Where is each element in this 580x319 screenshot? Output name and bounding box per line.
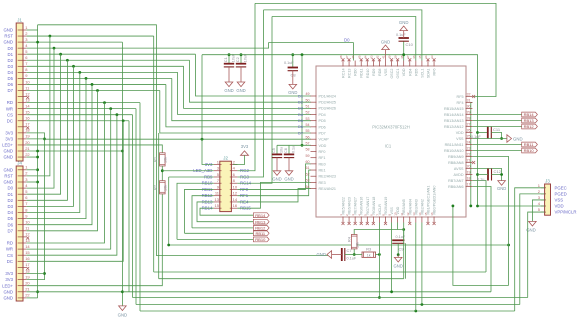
capacitor C10 bbox=[403, 41, 405, 60]
wire D6 row bbox=[27, 83, 166, 85]
svg-text:GND: GND bbox=[381, 40, 390, 45]
resistor R1 bbox=[160, 153, 166, 166]
svg-text:RB4/AN4: RB4/AN4 bbox=[408, 199, 412, 214]
wire RB14 J2.15 bbox=[200, 208, 253, 215]
svg-text:60: 60 bbox=[306, 160, 310, 164]
svg-text:45: 45 bbox=[357, 55, 361, 59]
svg-text:21: 21 bbox=[467, 159, 471, 163]
svg-text:GND: GND bbox=[284, 176, 293, 181]
svg-text:3: 3 bbox=[25, 177, 28, 182]
svg-text:RG6/AN16: RG6/AN16 bbox=[360, 197, 364, 215]
wire GND J1.1 bbox=[27, 29, 38, 31]
svg-text:17: 17 bbox=[467, 183, 471, 187]
svg-text:RE2/AN23: RE2/AN23 bbox=[319, 175, 336, 179]
wire RB9 J2.5 bbox=[169, 176, 214, 178]
svg-text:RE7/AN27: RE7/AN27 bbox=[354, 197, 358, 214]
net labels RB11 RB10 bbox=[472, 144, 521, 146]
wire RF1 J2.12 bbox=[237, 170, 311, 196]
svg-text:RB11: RB11 bbox=[524, 142, 534, 147]
svg-text:GND: GND bbox=[394, 264, 403, 269]
svg-text:64: 64 bbox=[306, 185, 310, 189]
connector J2 bbox=[220, 161, 232, 211]
net label RB12 bbox=[253, 226, 269, 231]
svg-text:RE5/AN22: RE5/AN22 bbox=[342, 197, 346, 214]
wire RST drop long bbox=[153, 36, 155, 272]
svg-text:D6: D6 bbox=[8, 82, 14, 87]
svg-text:RB9/AN9: RB9/AN9 bbox=[448, 155, 463, 159]
svg-text:25: 25 bbox=[467, 135, 471, 139]
svg-text:40: 40 bbox=[388, 55, 392, 59]
svg-text:GND: GND bbox=[316, 252, 326, 257]
wire D5 row bbox=[27, 77, 172, 79]
svg-text:SDA1: SDA1 bbox=[426, 69, 430, 79]
svg-text:D5: D5 bbox=[298, 118, 303, 123]
svg-text:2: 2 bbox=[538, 189, 541, 194]
wire RB12 to box bbox=[192, 227, 253, 229]
svg-text:0.1uF: 0.1uF bbox=[396, 235, 406, 239]
svg-text:21: 21 bbox=[25, 146, 30, 151]
svg-text:R4: R4 bbox=[347, 236, 352, 242]
junction bbox=[353, 253, 356, 256]
svg-text:15: 15 bbox=[25, 110, 30, 115]
junction bbox=[49, 35, 52, 38]
svg-text:RE4/AN21: RE4/AN21 bbox=[319, 187, 336, 191]
junction bbox=[500, 137, 503, 140]
svg-text:R2: R2 bbox=[153, 184, 158, 190]
svg-text:VDD: VDD bbox=[456, 131, 464, 135]
svg-text:0.1u: 0.1u bbox=[477, 178, 484, 182]
capacitor C12 bbox=[487, 169, 489, 181]
resistor R2 bbox=[160, 181, 166, 194]
svg-text:D2: D2 bbox=[8, 198, 14, 203]
wire LED+ J4.20 bbox=[27, 193, 163, 285]
svg-text:29: 29 bbox=[467, 111, 471, 115]
wire drop bbox=[27, 115, 117, 256]
wire VDD J3 bbox=[478, 205, 545, 207]
svg-text:10: 10 bbox=[25, 220, 30, 225]
svg-text:PGEC: PGEC bbox=[555, 185, 567, 190]
svg-text:GND: GND bbox=[497, 186, 506, 191]
svg-text:6: 6 bbox=[233, 172, 236, 177]
wire mid h245 bbox=[169, 244, 509, 246]
junction bbox=[378, 296, 381, 299]
svg-text:RB14: RB14 bbox=[255, 213, 266, 218]
svg-text:41: 41 bbox=[382, 55, 386, 59]
op-amp U1 IC1 PIC32MX370F512H body bbox=[316, 66, 466, 217]
junction bbox=[201, 138, 204, 141]
resistor R4 bbox=[351, 235, 357, 249]
wire top h7.5 bbox=[264, 10, 422, 61]
wire RB5 drop bbox=[403, 223, 405, 279]
svg-text:D0: D0 bbox=[8, 186, 14, 191]
net label RB13 bbox=[253, 219, 269, 224]
svg-text:18: 18 bbox=[25, 268, 30, 273]
svg-text:1: 1 bbox=[25, 165, 28, 170]
svg-text:VSS: VSS bbox=[456, 137, 464, 141]
svg-text:2: 2 bbox=[25, 31, 28, 36]
svg-text:RG7/AN17: RG7/AN17 bbox=[366, 197, 370, 215]
svg-text:58: 58 bbox=[306, 148, 310, 152]
svg-text:RST: RST bbox=[4, 34, 13, 39]
junction bbox=[36, 41, 39, 44]
net label RB10 bbox=[253, 237, 269, 242]
wire LED+ J1.20 bbox=[27, 145, 163, 153]
svg-text:RG9/AN19: RG9/AN19 bbox=[384, 197, 388, 215]
svg-text:VPP/MCLR: VPP/MCLR bbox=[555, 210, 577, 215]
junction bbox=[402, 228, 405, 231]
wire D7 row bbox=[27, 90, 160, 92]
svg-text:D3: D3 bbox=[8, 204, 14, 209]
net label RB14 bbox=[253, 213, 269, 218]
svg-text:RE3: RE3 bbox=[319, 181, 326, 185]
svg-text:D7: D7 bbox=[8, 228, 14, 233]
wire RG3 J2.6 bbox=[237, 10, 263, 177]
svg-text:OSC1: OSC1 bbox=[396, 69, 400, 79]
ground bbox=[237, 82, 245, 87]
wire mid h272 bbox=[154, 271, 486, 273]
wire RB10 to box bbox=[177, 238, 253, 240]
svg-text:PD3/AN26: PD3/AN26 bbox=[319, 107, 336, 111]
svg-text:5: 5 bbox=[538, 207, 541, 212]
supply +3V3 above J2 bbox=[241, 151, 249, 156]
IC right pins bbox=[466, 96, 473, 98]
svg-text:RD5: RD5 bbox=[414, 69, 418, 76]
wire 3V3 J2.1 bbox=[202, 55, 214, 165]
svg-text:9: 9 bbox=[25, 213, 28, 218]
svg-text:12: 12 bbox=[25, 91, 30, 96]
wire D0 into IC bbox=[353, 43, 355, 61]
svg-text:RD8: RD8 bbox=[378, 69, 382, 76]
wire D6 drop bbox=[27, 84, 93, 224]
svg-text:38: 38 bbox=[400, 55, 404, 59]
IC top pins bbox=[342, 61, 344, 67]
svg-text:31: 31 bbox=[467, 99, 471, 103]
svg-text:GND: GND bbox=[272, 176, 281, 181]
wire D2 drop bbox=[27, 60, 68, 200]
capacitor C8 bbox=[292, 55, 294, 68]
junction node LED_A3D bbox=[161, 169, 164, 172]
wire D0 row bbox=[27, 43, 354, 49]
svg-text:47: 47 bbox=[345, 55, 349, 59]
svg-text:J4: J4 bbox=[17, 161, 22, 166]
wire RC14 J2.8 bbox=[237, 17, 272, 184]
wire 3V3 rail bbox=[202, 55, 478, 206]
svg-text:18: 18 bbox=[25, 128, 30, 133]
wire RG2 J2.4 bbox=[237, 3, 255, 170]
wire RB11 J2.9 bbox=[185, 189, 214, 233]
connector J1 bbox=[16, 23, 23, 161]
svg-text:D1: D1 bbox=[8, 192, 14, 197]
svg-text:RG8/AN18: RG8/AN18 bbox=[372, 197, 376, 215]
svg-text:3V3: 3V3 bbox=[5, 130, 13, 135]
wire VSS drop bbox=[391, 223, 393, 292]
junction bbox=[301, 144, 304, 147]
wire RF0 J2.10 bbox=[237, 164, 311, 190]
wire RB7 loop bbox=[472, 181, 486, 273]
svg-text:3V3: 3V3 bbox=[5, 277, 13, 282]
svg-text:RF4: RF4 bbox=[457, 101, 464, 105]
svg-text:11: 11 bbox=[25, 226, 30, 231]
svg-text:CS: CS bbox=[7, 253, 13, 258]
wire GND vertical bbox=[37, 25, 39, 298]
svg-text:11: 11 bbox=[215, 191, 220, 196]
svg-text:28: 28 bbox=[467, 117, 471, 121]
wire RB9 riser bbox=[168, 177, 170, 245]
svg-text:GND: GND bbox=[3, 167, 13, 172]
net label RB11 bbox=[253, 231, 269, 236]
svg-text:8: 8 bbox=[25, 207, 28, 212]
svg-text:D2: D2 bbox=[298, 99, 303, 104]
svg-text:1k: 1k bbox=[367, 253, 371, 257]
svg-text:51: 51 bbox=[306, 105, 310, 109]
wire drop bbox=[27, 109, 111, 249]
connector J3 bbox=[545, 184, 551, 215]
svg-text:C1: C1 bbox=[223, 57, 228, 62]
junction bbox=[390, 290, 393, 293]
wire CS row bbox=[27, 114, 133, 116]
svg-text:RF1: RF1 bbox=[319, 156, 326, 160]
svg-text:DC: DC bbox=[7, 259, 13, 264]
junction bbox=[36, 150, 39, 153]
junction bbox=[59, 53, 62, 56]
svg-text:6: 6 bbox=[25, 195, 28, 200]
wire VDD left row bbox=[277, 144, 311, 146]
svg-text:C7: C7 bbox=[347, 248, 353, 253]
svg-text:59: 59 bbox=[306, 154, 310, 158]
svg-text:J2: J2 bbox=[223, 156, 228, 161]
svg-text:34: 34 bbox=[424, 55, 428, 59]
svg-text:RC14: RC14 bbox=[342, 69, 346, 78]
junction bbox=[116, 113, 119, 116]
wire bottom VPP h297 bbox=[133, 297, 528, 299]
svg-text:PD2/AN25: PD2/AN25 bbox=[319, 101, 336, 105]
svg-text:12: 12 bbox=[233, 191, 238, 196]
wire bbox=[161, 166, 163, 181]
svg-text:6: 6 bbox=[25, 55, 28, 60]
junction bbox=[103, 101, 106, 104]
junction bbox=[476, 131, 479, 134]
svg-text:10: 10 bbox=[233, 184, 238, 189]
svg-text:RD0: RD0 bbox=[354, 69, 358, 76]
svg-text:GND: GND bbox=[3, 40, 13, 45]
wire bottom GND h291 bbox=[122, 291, 491, 293]
ground at VSS top bbox=[385, 49, 387, 61]
svg-text:RB10: RB10 bbox=[524, 148, 535, 153]
capacitor C6 bbox=[288, 145, 290, 154]
svg-text:GND: GND bbox=[3, 155, 13, 160]
wire bbox=[353, 249, 355, 255]
svg-text:MCLR: MCLR bbox=[378, 204, 382, 215]
svg-text:17: 17 bbox=[25, 262, 30, 267]
svg-text:RB12: RB12 bbox=[524, 124, 535, 129]
svg-text:LED+: LED+ bbox=[2, 283, 13, 288]
wire D2 to IC bbox=[190, 60, 312, 102]
svg-text:D1: D1 bbox=[298, 93, 303, 98]
svg-text:20: 20 bbox=[25, 281, 30, 286]
ground below C9 bbox=[394, 257, 402, 262]
svg-text:RB13/AN13: RB13/AN13 bbox=[444, 119, 463, 123]
svg-text:10k: 10k bbox=[164, 185, 168, 191]
svg-text:10k: 10k bbox=[356, 242, 360, 248]
svg-text:VSS: VSS bbox=[384, 68, 388, 76]
wire D4 row bbox=[27, 71, 178, 73]
svg-text:19: 19 bbox=[25, 134, 30, 139]
wire C9 top lead bbox=[403, 230, 405, 241]
wire bottom PGEC h311 bbox=[140, 310, 515, 312]
junction bbox=[121, 290, 124, 293]
svg-text:GND: GND bbox=[513, 136, 523, 141]
svg-text:RB0/PGED1/AN0: RB0/PGED1/AN0 bbox=[433, 186, 437, 215]
wire tail drop bbox=[128, 121, 130, 292]
svg-text:20: 20 bbox=[25, 140, 30, 145]
svg-text:13: 13 bbox=[25, 238, 30, 243]
svg-text:DC: DC bbox=[7, 118, 13, 123]
svg-text:8: 8 bbox=[25, 67, 28, 72]
svg-text:4: 4 bbox=[538, 201, 541, 206]
svg-text:RB12/AN12: RB12/AN12 bbox=[444, 125, 463, 129]
svg-text:10k: 10k bbox=[164, 157, 168, 163]
wire RB15 J2.16 bbox=[237, 182, 311, 208]
svg-text:48: 48 bbox=[339, 55, 343, 59]
wire PGEC bbox=[515, 188, 545, 311]
svg-text:19: 19 bbox=[467, 171, 471, 175]
svg-text:D2: D2 bbox=[8, 58, 14, 63]
svg-text:RB2/AN2: RB2/AN2 bbox=[420, 199, 424, 214]
svg-text:16: 16 bbox=[25, 116, 30, 121]
capacitor C7 bbox=[341, 248, 343, 261]
ground bbox=[225, 82, 233, 87]
svg-text:RB10/AN10: RB10/AN10 bbox=[444, 149, 463, 153]
wire RB2 drop bbox=[421, 223, 423, 305]
wire tail drop bbox=[135, 109, 137, 305]
svg-text:5: 5 bbox=[25, 189, 28, 194]
svg-text:57: 57 bbox=[306, 142, 310, 146]
wire VSS row bbox=[472, 138, 507, 140]
wire AVSS bbox=[472, 169, 501, 182]
svg-text:RF0: RF0 bbox=[319, 150, 326, 154]
svg-text:PD4: PD4 bbox=[319, 113, 326, 117]
svg-text:RB1/PGEC1/AN1: RB1/PGEC1/AN1 bbox=[426, 186, 430, 215]
svg-text:RF6: RF6 bbox=[433, 69, 437, 76]
svg-text:35: 35 bbox=[418, 55, 422, 59]
svg-text:14: 14 bbox=[25, 244, 30, 249]
junction bbox=[500, 173, 503, 176]
wire RB6 loop bbox=[472, 187, 491, 292]
svg-text:11: 11 bbox=[25, 85, 30, 90]
junction bbox=[43, 138, 46, 141]
capacitor C5 bbox=[276, 145, 278, 154]
svg-text:GND: GND bbox=[3, 149, 13, 154]
svg-text:J1: J1 bbox=[17, 18, 22, 23]
wire bottom PGED h304 bbox=[136, 304, 520, 306]
svg-text:4: 4 bbox=[25, 183, 28, 188]
svg-text:23: 23 bbox=[467, 147, 471, 151]
svg-text:GND: GND bbox=[288, 90, 297, 95]
svg-text:WR: WR bbox=[6, 106, 13, 111]
junction bbox=[469, 205, 472, 208]
svg-text:PD1/AN24: PD1/AN24 bbox=[319, 94, 336, 98]
svg-text:RE0: RE0 bbox=[319, 162, 326, 166]
svg-text:46: 46 bbox=[351, 55, 355, 59]
svg-text:PD5: PD5 bbox=[319, 119, 326, 123]
svg-text:C11: C11 bbox=[493, 127, 501, 132]
svg-text:RB3/AN3: RB3/AN3 bbox=[414, 199, 418, 214]
svg-text:C6: C6 bbox=[284, 148, 288, 153]
svg-text:RB15/AN15: RB15/AN15 bbox=[444, 107, 463, 111]
svg-text:D0: D0 bbox=[8, 46, 14, 51]
svg-text:50: 50 bbox=[306, 98, 310, 102]
svg-text:22: 22 bbox=[25, 152, 30, 157]
svg-text:3V3: 3V3 bbox=[5, 271, 13, 276]
wire 3V3 VCAP row bbox=[45, 138, 312, 140]
svg-text:4: 4 bbox=[233, 166, 236, 171]
wire D1 row bbox=[27, 53, 196, 55]
svg-text:14: 14 bbox=[25, 103, 30, 108]
wire RB11 to box bbox=[185, 232, 254, 234]
wire bbox=[233, 155, 245, 164]
wire GND J4 rows bbox=[36, 168, 39, 171]
svg-text:RD: RD bbox=[7, 100, 13, 105]
wire v158 to h278 bbox=[158, 133, 160, 279]
svg-text:RD10: RD10 bbox=[366, 69, 370, 78]
svg-text:14: 14 bbox=[233, 197, 238, 202]
svg-text:44: 44 bbox=[363, 55, 367, 59]
ground below J3 bbox=[529, 221, 537, 226]
svg-text:RB10: RB10 bbox=[255, 237, 266, 242]
IC bottom pins bbox=[342, 217, 344, 223]
svg-text:CS: CS bbox=[7, 112, 13, 117]
svg-text:43: 43 bbox=[369, 55, 373, 59]
wire RE4 J2.14 bbox=[237, 189, 311, 202]
svg-text:VDD: VDD bbox=[402, 68, 406, 76]
svg-text:RB7/AN7: RB7/AN7 bbox=[448, 179, 463, 183]
junction bbox=[452, 205, 455, 208]
svg-text:8: 8 bbox=[233, 178, 236, 183]
svg-text:36: 36 bbox=[412, 55, 416, 59]
junction bbox=[421, 303, 424, 306]
wire RST bbox=[27, 35, 154, 37]
svg-text:D0: D0 bbox=[344, 38, 350, 43]
junction bbox=[96, 89, 99, 92]
junction bbox=[66, 59, 69, 62]
wire MCLR bbox=[378, 223, 380, 298]
svg-text:GND: GND bbox=[3, 28, 13, 33]
svg-text:13: 13 bbox=[215, 197, 220, 202]
svg-text:0.1uF: 0.1uF bbox=[347, 257, 357, 261]
svg-text:3V3: 3V3 bbox=[241, 144, 249, 149]
svg-text:RB14/AN14: RB14/AN14 bbox=[444, 113, 463, 117]
wire RB13 J2.13 bbox=[197, 202, 253, 222]
wire D0 drop bbox=[27, 48, 55, 188]
ground below C12 bbox=[498, 181, 506, 186]
svg-text:27: 27 bbox=[467, 123, 471, 127]
junction bbox=[85, 77, 88, 80]
svg-text:52: 52 bbox=[306, 111, 310, 115]
svg-text:C12: C12 bbox=[494, 169, 502, 174]
svg-text:PD6: PD6 bbox=[319, 125, 326, 129]
junction bbox=[36, 156, 39, 159]
svg-text:RE1: RE1 bbox=[319, 168, 326, 172]
ground bbox=[285, 171, 293, 176]
svg-text:VCAP: VCAP bbox=[319, 138, 330, 142]
svg-text:17: 17 bbox=[25, 122, 30, 127]
svg-text:3V3: 3V3 bbox=[5, 137, 13, 142]
wire D6 to IC bbox=[166, 84, 311, 126]
svg-text:D6: D6 bbox=[298, 124, 303, 129]
svg-text:0.1uF: 0.1uF bbox=[284, 61, 294, 65]
svg-text:PIC32MX370F512H: PIC32MX370F512H bbox=[372, 125, 409, 130]
junction bbox=[121, 150, 124, 153]
